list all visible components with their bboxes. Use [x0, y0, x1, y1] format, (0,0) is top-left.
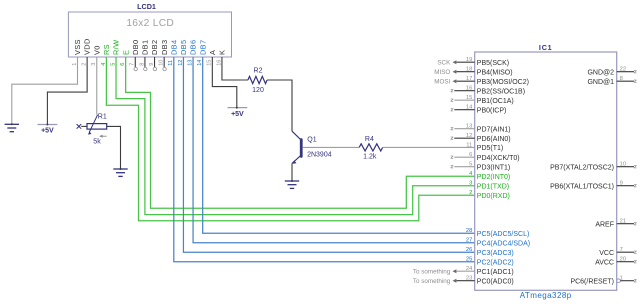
svg-text:9: 9	[620, 181, 623, 187]
svg-text:5k: 5k	[93, 139, 101, 146]
svg-text:PD5(T1): PD5(T1)	[477, 145, 503, 152]
svg-text:8: 8	[620, 76, 623, 82]
IC1 pin 27 PC4(ADC4/SDA)	[466, 238, 530, 248]
svg-text:13: 13	[466, 124, 472, 130]
svg-text:15: 15	[466, 95, 472, 101]
R2 value 120	[252, 87, 264, 94]
svg-text:2N3904: 2N3904	[307, 152, 332, 159]
ground GND3 (Q1 emitter)	[285, 181, 299, 188]
wire Q1 emitter to ground	[291, 163, 293, 181]
svg-text:PB7(XTAL2/TOSC2): PB7(XTAL2/TOSC2)	[550, 164, 614, 171]
LCD subtitle 16x2 LCD	[126, 18, 174, 29]
svg-text:PC1(ADC1): PC1(ADC1)	[477, 269, 514, 276]
svg-text:E: E	[121, 50, 130, 55]
svg-text:10: 10	[620, 162, 626, 168]
svg-text:PC6(/RESET): PC6(/RESET)	[570, 278, 614, 285]
svg-text:LCD1: LCD1	[137, 2, 156, 11]
svg-text:A: A	[208, 50, 217, 55]
svg-text:AVCC: AVCC	[595, 259, 614, 266]
svg-text:V0: V0	[92, 45, 101, 55]
svg-text:DB4: DB4	[169, 40, 178, 55]
svg-text:VSS: VSS	[73, 39, 82, 55]
IC1 pin 22 GND@2	[587, 67, 636, 77]
svg-text:24: 24	[466, 266, 473, 272]
svg-text:PC2(ADC2): PC2(ADC2)	[477, 259, 514, 266]
svg-text:2: 2	[469, 190, 472, 196]
svg-text:DB3: DB3	[160, 40, 169, 55]
IC1 reference label	[539, 43, 553, 52]
svg-text:28: 28	[466, 228, 472, 234]
wire Q1 base to R4	[303, 146, 360, 148]
svg-text:RS: RS	[102, 44, 111, 55]
IC1 pin 24 PC1(ADC1)	[413, 266, 514, 276]
IC1 pin 10 PB7(XTAL2/TOSC2)	[550, 162, 636, 172]
Q1 label	[307, 137, 316, 144]
wire R2 to Q1 collector	[267, 80, 292, 131]
wire net DB6 to PC4	[193, 57, 475, 243]
wire net E to PD2(INT0)	[126, 57, 475, 208]
IC1 pin 3 PD1(TXD)	[469, 181, 509, 191]
IC1 pin 28 PC5(ADC5/SCL)	[466, 228, 529, 238]
svg-text:16x2 LCD: 16x2 LCD	[126, 18, 174, 29]
svg-text:Q1: Q1	[307, 137, 316, 144]
IC1 pin 5 PD3(INT1)	[451, 162, 511, 172]
IC1 pin 23 PC0(ADC0)	[413, 276, 514, 286]
svg-text:PB3(MOSI/OC2): PB3(MOSI/OC2)	[477, 79, 529, 86]
svg-text:PD4(XCK/T0): PD4(XCK/T0)	[477, 155, 520, 162]
IC1 part name ATmega328p	[520, 291, 572, 300]
svg-text:23: 23	[466, 276, 472, 282]
junction A +5V	[236, 107, 238, 109]
svg-text:To something: To something	[413, 268, 451, 275]
svg-text:VDD: VDD	[83, 38, 92, 55]
svg-text:5: 5	[469, 162, 472, 168]
svg-text:R/W: R/W	[112, 40, 121, 55]
IC1 pin 2 PD0(RXD)	[469, 190, 510, 200]
svg-text:14: 14	[466, 105, 473, 111]
wire K pin16 to R2	[222, 57, 248, 80]
LCD pin numbers 1-16	[72, 60, 222, 66]
svg-text:AREF: AREF	[595, 221, 614, 228]
wire R4 to PD5	[383, 146, 475, 148]
svg-text:ATmega328p: ATmega328p	[520, 291, 572, 300]
power +5V (LCD backlight A)	[228, 108, 248, 119]
LCD pin name labels VSS..K	[73, 38, 226, 55]
Q1 value 2N3904	[307, 152, 332, 159]
wire net RS to PD0(RXD)	[106, 57, 474, 221]
svg-text:DB0: DB0	[131, 40, 140, 55]
junction VSS ground	[11, 123, 13, 125]
svg-text:VCC: VCC	[599, 250, 614, 257]
svg-text:26: 26	[466, 247, 472, 253]
svg-text:PB5(SCK): PB5(SCK)	[477, 60, 509, 67]
wire A pin15 to +5V	[212, 57, 236, 108]
R1 label	[98, 113, 107, 120]
svg-text:3: 3	[469, 181, 472, 187]
svg-text:PD2(INT0): PD2(INT0)	[477, 174, 510, 181]
svg-text:16: 16	[466, 86, 472, 92]
svg-text:R1: R1	[98, 113, 107, 120]
svg-text:PC3(ADC3): PC3(ADC3)	[477, 250, 514, 257]
svg-text:PD7(AIN1): PD7(AIN1)	[477, 126, 511, 133]
IC1 pin 8 GND@1	[587, 76, 636, 86]
wire net DB4 to PC2	[174, 57, 475, 262]
wire net DB7 to PC5	[203, 57, 475, 233]
wire VDD pin2 to +5V	[47, 57, 87, 125]
power +5V (LCD VDD)	[38, 125, 58, 135]
svg-text:+5V: +5V	[41, 128, 54, 135]
ground GND1 (LCD VSS)	[5, 124, 19, 131]
junction Q1 ground	[291, 180, 293, 182]
svg-text:R2: R2	[254, 67, 263, 74]
IC1 pin 11 PD5(T1)	[466, 142, 503, 152]
svg-text:11: 11	[466, 142, 472, 148]
svg-text:PB4(MISO): PB4(MISO)	[477, 69, 513, 76]
svg-text:PC4(ADC4/SDA): PC4(ADC4/SDA)	[477, 240, 530, 247]
wire net DB5 to PC3	[183, 57, 474, 252]
svg-text:DB5: DB5	[179, 40, 188, 55]
svg-text:DB7: DB7	[198, 40, 207, 55]
wire stub LCD DB2 unconnected	[153, 57, 156, 71]
IC1 pin 16 PB2(SS/OC1B)	[451, 86, 525, 96]
IC1 pin 15 PB1(OC1A)	[451, 95, 514, 105]
resistor R1 trimmer 5k	[77, 115, 107, 138]
svg-text:R4: R4	[365, 136, 374, 143]
svg-text:PC5(ADC5/SCL): PC5(ADC5/SCL)	[477, 231, 530, 238]
IC1 pin 4 PD2(INT0)	[469, 171, 510, 181]
svg-text:PB1(OC1A): PB1(OC1A)	[477, 98, 514, 105]
svg-text:17: 17	[466, 76, 472, 82]
svg-text:MOSI: MOSI	[434, 78, 450, 85]
resistor R2 120	[248, 76, 267, 83]
svg-text:7: 7	[620, 247, 623, 253]
svg-text:12: 12	[466, 133, 472, 139]
svg-text:GND@1: GND@1	[587, 79, 614, 86]
wire stub LCD DB1 unconnected	[144, 57, 147, 71]
wire V0 pin3 to R1 wiper	[96, 57, 98, 115]
IC1 pin 19 PB5(SCK)	[437, 57, 509, 67]
svg-text:22: 22	[620, 67, 626, 73]
svg-text:PD6(AIN0): PD6(AIN0)	[477, 136, 511, 143]
LCD1 reference label	[137, 2, 156, 11]
transistor Q1 2N3904	[292, 131, 302, 164]
svg-text:PB2(SS/OC1B): PB2(SS/OC1B)	[477, 88, 525, 95]
junction R1 ground	[120, 168, 122, 170]
wire R1 leg2 to ground	[107, 126, 121, 169]
svg-text:To something: To something	[413, 278, 451, 285]
svg-text:+5V: +5V	[231, 111, 244, 118]
IC1 pin 13 PD7(AIN1)	[451, 124, 511, 134]
wire VSS pin1 to ground	[12, 57, 78, 124]
junction VDD +5V	[46, 124, 48, 126]
IC1 pin 17 PB3(MOSI/OC2)	[434, 76, 529, 86]
wire stub LCD DB0 unconnected	[134, 57, 137, 71]
IC1 pin 20 AVCC	[595, 257, 636, 267]
resistor R4 1.2k	[359, 144, 383, 151]
svg-text:19: 19	[466, 57, 472, 63]
R2 label	[254, 67, 263, 74]
svg-text:6: 6	[469, 152, 472, 158]
svg-text:PD1(TXD): PD1(TXD)	[477, 183, 509, 190]
svg-text:K: K	[218, 50, 227, 55]
svg-text:1: 1	[620, 276, 623, 282]
IC1 pin 18 PB4(MISO)	[434, 67, 512, 77]
IC1 pin 26 PC3(ADC3)	[466, 247, 514, 257]
wire stub LCD DB3 unconnected	[163, 57, 166, 71]
svg-text:SCK: SCK	[437, 59, 451, 66]
wire net R/W to PD1(TXD)	[116, 57, 475, 215]
svg-text:MISO: MISO	[434, 69, 450, 76]
svg-text:1.2k: 1.2k	[363, 154, 377, 161]
R4 value 1.2k	[363, 154, 377, 161]
svg-text:PC0(ADC0): PC0(ADC0)	[477, 278, 514, 285]
svg-text:GND@2: GND@2	[587, 69, 614, 76]
IC1 pin 1 PC6(/RESET)	[570, 276, 636, 286]
svg-text:27: 27	[466, 238, 472, 244]
IC1 pin 6 PD4(XCK/T0)	[451, 152, 520, 162]
R4 label	[365, 136, 374, 143]
svg-text:DB6: DB6	[189, 40, 198, 55]
R1 value 5k	[93, 139, 101, 146]
op-amp IC1 ATmega328p box	[475, 52, 617, 290]
svg-text:PD3(INT1): PD3(INT1)	[477, 164, 510, 171]
IC1 pin 9 PB6(XTAL1/TOSC1)	[550, 181, 636, 191]
svg-text:21: 21	[620, 219, 626, 225]
svg-text:IC1: IC1	[539, 43, 553, 52]
svg-text:120: 120	[252, 87, 264, 94]
IC1 pin 21 AREF	[595, 219, 636, 229]
LCD module LCD1 box	[68, 12, 231, 57]
svg-text:18: 18	[466, 67, 472, 73]
svg-text:DB2: DB2	[150, 40, 159, 55]
IC1 pin 14 PB0(ICP)	[451, 105, 507, 115]
svg-text:DB1: DB1	[141, 40, 150, 55]
IC1 pin 12 PD6(AIN0)	[451, 133, 511, 143]
svg-text:PD0(RXD): PD0(RXD)	[477, 193, 510, 200]
svg-text:25: 25	[466, 257, 472, 263]
svg-text:20: 20	[620, 257, 626, 263]
IC1 pin 25 PC2(ADC2)	[466, 257, 514, 267]
ground GND2 (R1)	[113, 169, 127, 176]
IC1 pin 7 VCC	[599, 247, 636, 257]
svg-text:PB6(XTAL1/TOSC1): PB6(XTAL1/TOSC1)	[550, 183, 614, 190]
svg-text:PB0(ICP): PB0(ICP)	[477, 107, 507, 114]
